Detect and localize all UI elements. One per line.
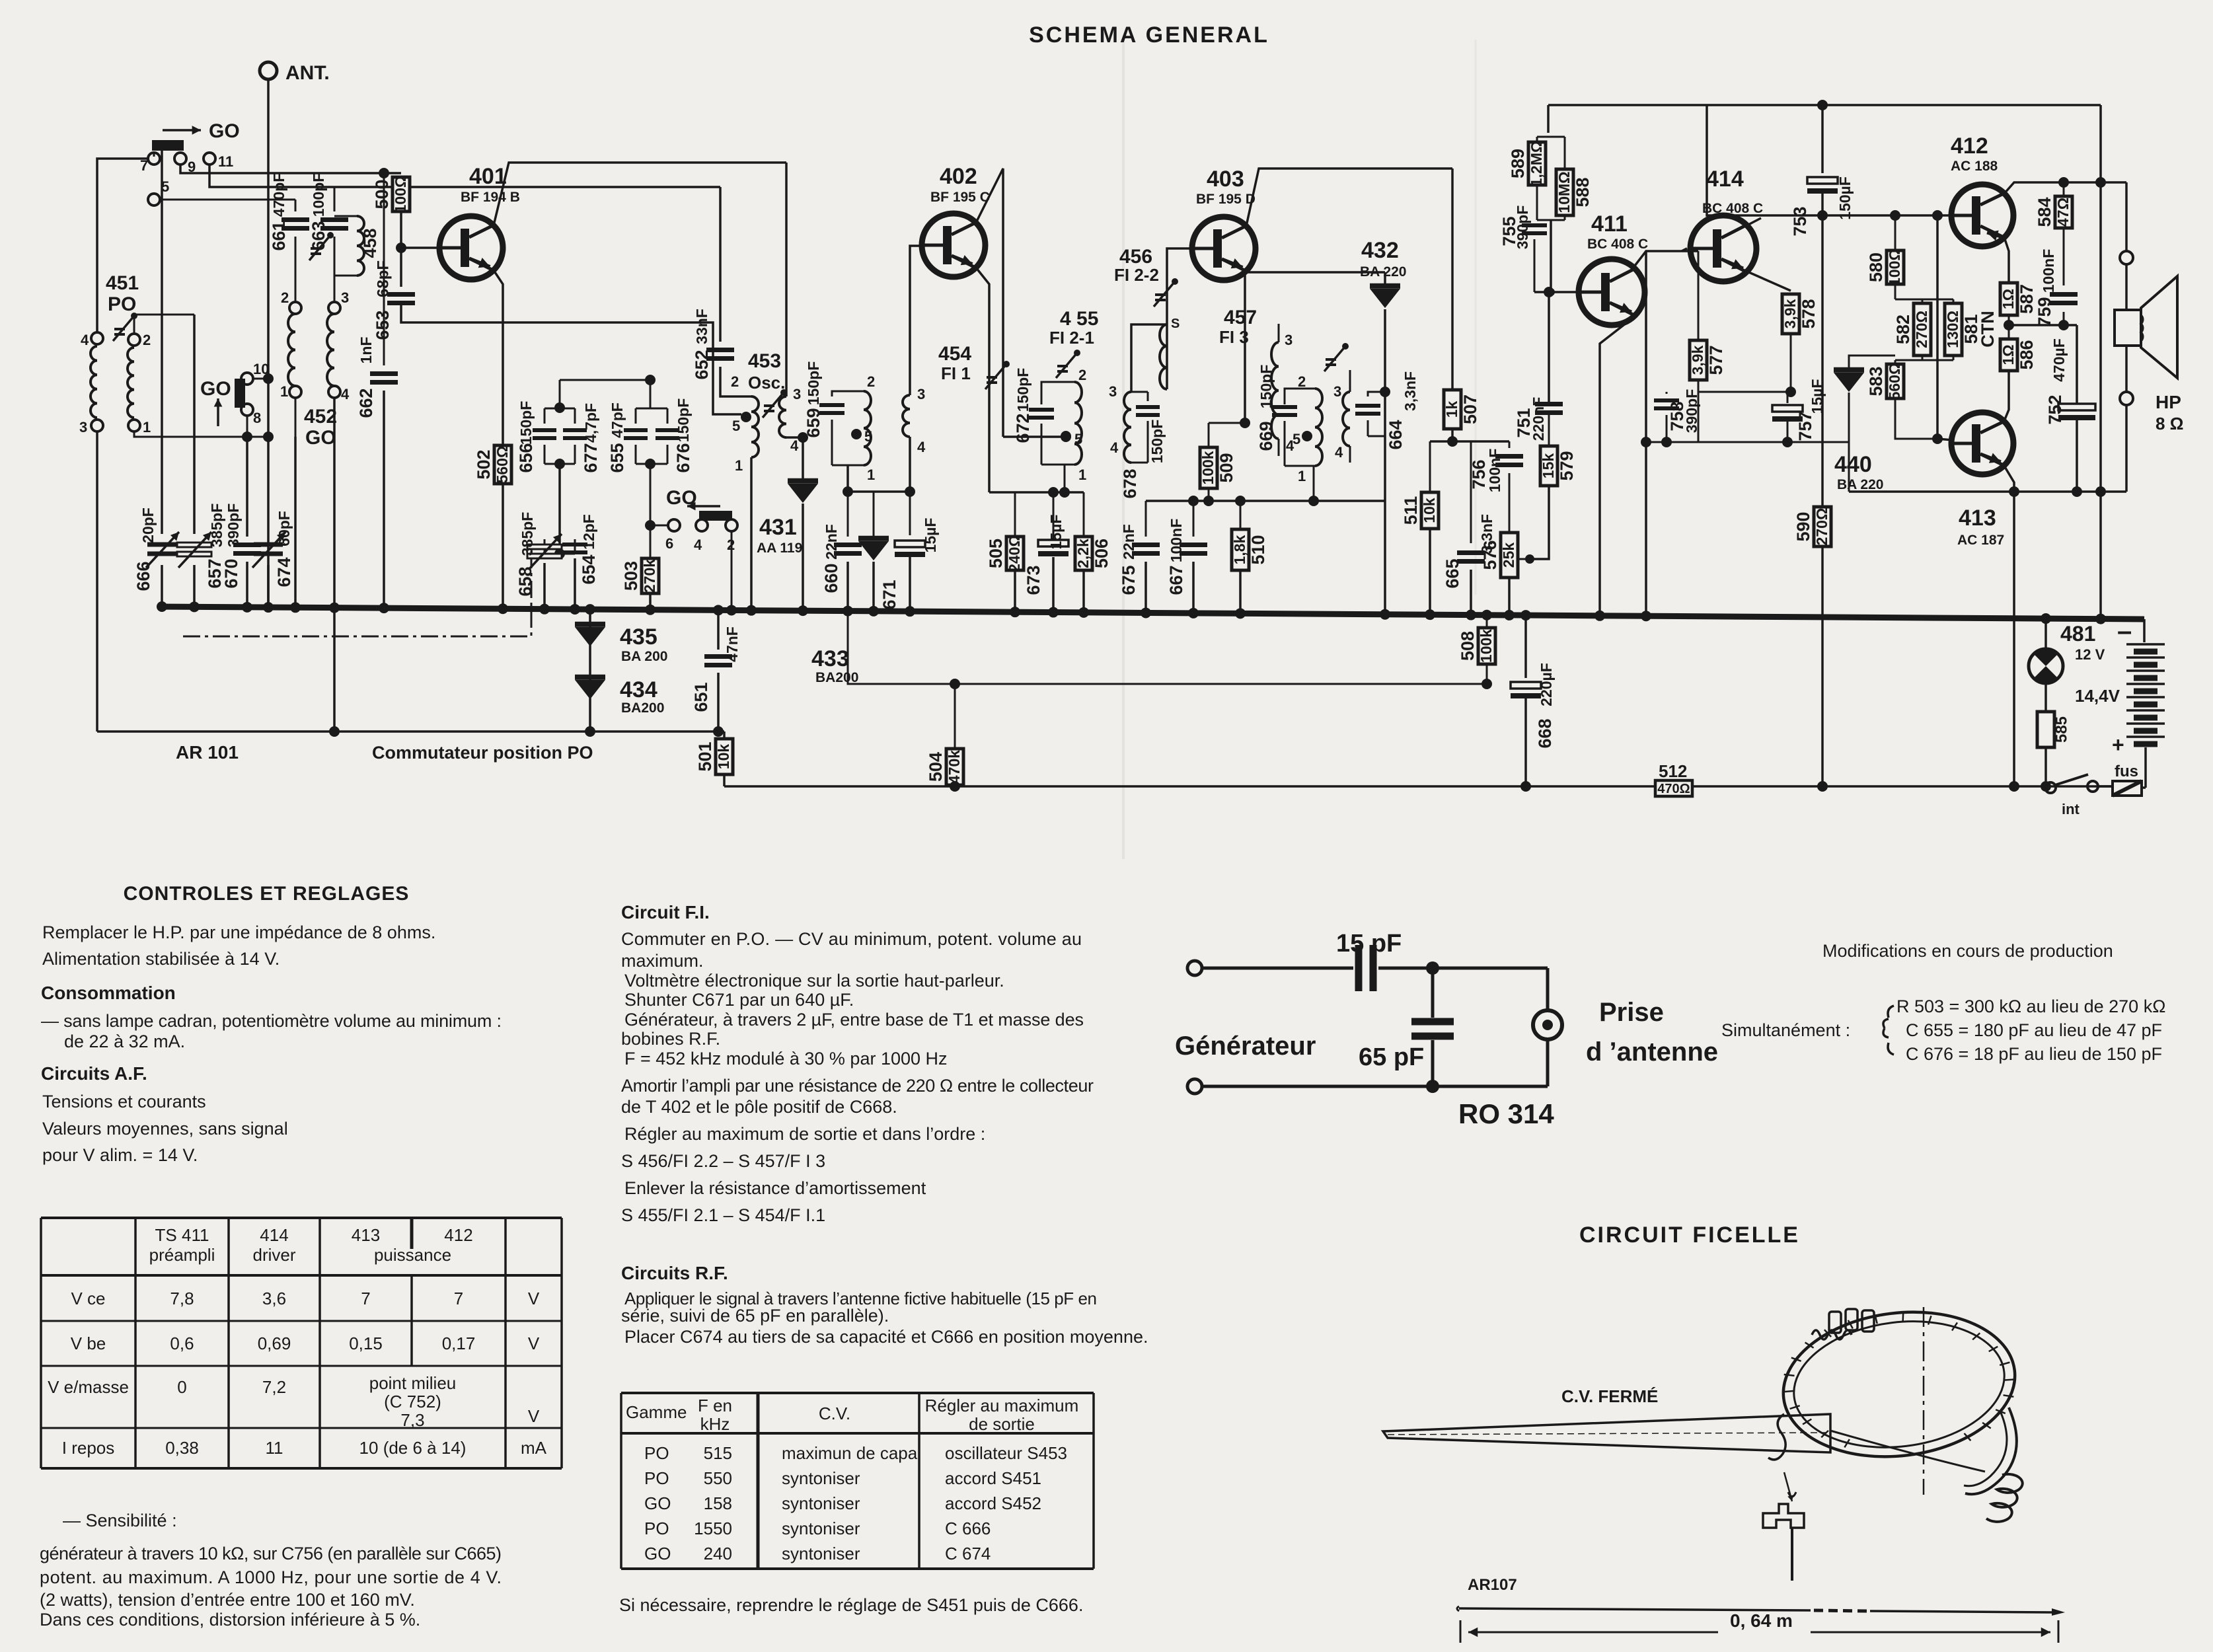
svg-text:587: 587 [2017, 284, 2037, 314]
svg-text:8: 8 [253, 410, 261, 426]
svg-text:100Ω: 100Ω [392, 176, 409, 213]
AGC line from detector [848, 611, 1487, 684]
capacitor C652 33nF [719, 187, 722, 342]
svg-text:1,8k: 1,8k [1231, 535, 1248, 564]
wire cap to node [1378, 967, 1548, 970]
svg-text:accord S452: accord S452 [945, 1493, 1041, 1513]
antenna terminal ANT [260, 62, 277, 79]
svg-text:652: 652 [692, 350, 712, 379]
svg-text:412: 412 [444, 1225, 472, 1245]
resistor R577 3.9k [1698, 251, 1700, 340]
svg-text:240Ω: 240Ω [1006, 535, 1023, 572]
svg-text:11: 11 [218, 153, 233, 170]
svg-text:434: 434 [620, 677, 657, 702]
svg-text:414: 414 [1706, 167, 1744, 192]
svg-text:752: 752 [2045, 394, 2065, 424]
capacitor C667 100nF [1193, 501, 1195, 537]
wire T413 base [1936, 215, 1939, 439]
transistor T413 AC187 [1951, 412, 2013, 474]
svg-text:20pF: 20pF [139, 507, 157, 543]
svg-text:driver: driver [252, 1245, 295, 1265]
wire coil1 to switch line [134, 432, 268, 437]
svg-text:656: 656 [516, 443, 536, 472]
coil 458 [334, 215, 357, 217]
capacitor 15pF series [1359, 945, 1373, 991]
svg-text:BA 220: BA 220 [1360, 264, 1406, 280]
svg-text:I repos: I repos [62, 1438, 115, 1458]
resistor R511 10k [1429, 441, 1431, 492]
svg-text:Circuits A.F.: Circuits A.F. [41, 1063, 147, 1084]
455 secondary winding [1124, 392, 1131, 463]
svg-text:1: 1 [280, 383, 288, 400]
contact 3 of 452 [328, 302, 340, 314]
svg-text:672: 672 [1013, 413, 1033, 443]
contact 2 [128, 334, 140, 346]
svg-text:1: 1 [143, 419, 151, 435]
svg-text:60pF: 60pF [276, 511, 293, 546]
svg-text:402: 402 [940, 164, 977, 189]
wire generator top [1202, 967, 1353, 970]
dash-dot gang line [183, 544, 531, 636]
svg-text:432: 432 [1361, 238, 1399, 263]
wire contact9 rail [180, 165, 401, 173]
svg-text:150µF: 150µF [1836, 176, 1854, 220]
transistor T402 BF195C [922, 213, 985, 277]
resistor R580 100ohm [1894, 215, 1896, 250]
svg-text:65 pF: 65 pF [1359, 1043, 1424, 1071]
svg-text:2: 2 [1078, 367, 1086, 383]
svg-text:1: 1 [735, 457, 743, 474]
svg-text:bobines R.F.: bobines R.F. [621, 1029, 720, 1049]
svg-text:oscillateur S453: oscillateur S453 [945, 1443, 1067, 1463]
transistor T411 BC408C [1579, 259, 1645, 325]
tension spring [1986, 1474, 2023, 1522]
svg-text:507: 507 [1460, 394, 1480, 424]
wire contact8 down [246, 416, 248, 437]
svg-text:508: 508 [1458, 631, 1478, 661]
svg-text:509: 509 [1217, 453, 1236, 482]
svg-text:3: 3 [917, 386, 925, 402]
svg-text:3,9k: 3,9k [1689, 345, 1706, 375]
capacitor C752 470uF [2076, 325, 2078, 403]
svg-text:390pF: 390pF [225, 504, 242, 547]
wire 457 pin1 to line [1313, 466, 1315, 501]
svg-text:Consommation: Consommation [41, 983, 176, 1003]
svg-text:500: 500 [372, 179, 392, 209]
svg-text:666: 666 [133, 561, 153, 591]
svg-text:453: 453 [748, 350, 781, 372]
capacitor C758 390pF [1654, 400, 1679, 408]
resistor R509 100k [1244, 272, 1246, 423]
svg-text:PO: PO [644, 1443, 669, 1463]
T411 collector load line [1645, 251, 1647, 616]
svg-text:240: 240 [704, 1544, 732, 1563]
wire contact10 [253, 378, 268, 380]
svg-text:3,6: 3,6 [262, 1289, 286, 1308]
svg-text:47nF: 47nF [724, 626, 741, 662]
svg-text:BF 194 B: BF 194 B [461, 190, 520, 205]
svg-text:150pF: 150pF [1014, 368, 1031, 412]
svg-text:100Ω: 100Ω [1886, 248, 1903, 286]
svg-text:503: 503 [621, 561, 641, 591]
contact 1 [128, 420, 140, 432]
svg-text:550: 550 [704, 1468, 732, 1488]
contact 6 [668, 519, 680, 531]
svg-text:–: – [2117, 617, 2132, 646]
svg-text:669: 669 [1256, 421, 1276, 451]
capacitor C670 390pF [246, 437, 248, 537]
svg-text:0, 64 m: 0, 64 m [1730, 1610, 1793, 1631]
capacitor C662 1nF [383, 173, 385, 365]
svg-text:4: 4 [790, 437, 799, 454]
svg-text:671: 671 [880, 580, 899, 609]
svg-text:de 22 à 32 mA.: de 22 à 32 mA. [64, 1032, 185, 1051]
svg-text:1Ω: 1Ω [2000, 344, 2017, 365]
pilot lamp 481 12V [2041, 613, 2051, 624]
resistor R507 1k [1451, 169, 1454, 390]
svg-text:130Ω: 130Ω [1944, 311, 1961, 348]
svg-text:Valeurs moyennes, sans signal: Valeurs moyennes, sans signal [42, 1119, 288, 1139]
svg-text:452: 452 [304, 406, 337, 428]
svg-text:R 503 = 300 kΩ au lieu de 270: R 503 = 300 kΩ au lieu de 270 kΩ [1896, 996, 2165, 1016]
svg-text:414: 414 [260, 1225, 288, 1245]
svg-text:22nF: 22nF [823, 524, 840, 560]
svg-text:CTN: CTN [1978, 311, 1998, 348]
svg-text:7,8: 7,8 [170, 1289, 194, 1308]
svg-text:10MΩ: 10MΩ [1556, 171, 1573, 213]
svg-text:V ce: V ce [71, 1289, 105, 1308]
svg-text:C 655 = 180 pF au lieu de 47 p: C 655 = 180 pF au lieu de 47 pF [1906, 1020, 2162, 1040]
svg-text:fus: fus [2115, 763, 2138, 780]
svg-text:1nF: 1nF [357, 337, 375, 364]
svg-text:15 pF: 15 pF [1336, 930, 1402, 957]
svg-text:préampli: préampli [149, 1245, 215, 1265]
svg-text:15µF: 15µF [922, 518, 939, 553]
svg-text:270Ω: 270Ω [1813, 508, 1830, 546]
svg-text:14,4V: 14,4V [2075, 686, 2120, 706]
svg-text:401: 401 [469, 164, 507, 189]
svg-text:PO: PO [644, 1519, 669, 1538]
bias resistors R589 R588 [1547, 105, 1550, 133]
svg-text:655: 655 [607, 443, 627, 472]
svg-text:int: int [2062, 801, 2080, 817]
svg-text:syntoniser: syntoniser [782, 1493, 860, 1513]
diode D433 BA200 [873, 492, 875, 537]
svg-text:100pF: 100pF [310, 173, 327, 217]
collector wire T411 [1633, 251, 1698, 268]
wire to T403 base [1167, 248, 1191, 389]
resistor R508 100k [1486, 615, 1488, 628]
drum tabs [1829, 1312, 1841, 1333]
svg-text:590: 590 [1793, 511, 1813, 541]
svg-text:S 456/FI 2.2 – S 457/F I 3: S 456/FI 2.2 – S 457/F I 3 [621, 1151, 825, 1171]
svg-text:Enlever la résistance d’amorti: Enlever la résistance d’amortissement [624, 1178, 926, 1198]
svg-text:385pF: 385pF [519, 512, 536, 556]
resistor R583 560ohm [1894, 360, 1896, 364]
collector wire T402 [976, 169, 1003, 437]
svg-text:4: 4 [1110, 439, 1119, 456]
svg-text:AC 188: AC 188 [1951, 159, 1998, 174]
svg-text:série, suivi de 65 pF en paral: série, suivi de 65 pF en parallèle). [621, 1306, 889, 1326]
transistor T414 BC408C [1690, 215, 1756, 282]
svg-text:653: 653 [373, 310, 393, 340]
variable capacitor C666 20pF [161, 151, 163, 534]
svg-text:Régler au maximum: Régler au maximum [925, 1396, 1079, 1415]
main supply vertical [2099, 105, 2102, 619]
svg-text:412: 412 [1951, 133, 1988, 159]
collector wire T403 [1246, 169, 1452, 226]
svg-text:— sans lampe cadran, potentio: — sans lampe cadran, potentiomètre volum… [41, 1011, 502, 1031]
svg-text:678: 678 [1120, 469, 1140, 498]
capacitor C653 68pF [400, 248, 402, 287]
capacitor C755 390pF [1522, 225, 1547, 233]
457 secondary winding [1343, 392, 1350, 446]
wire C653 to oscillator [401, 303, 741, 414]
svg-text:663: 663 [309, 221, 328, 250]
svg-text:661: 661 [269, 221, 289, 250]
svg-text:753: 753 [1790, 206, 1810, 236]
svg-text:100nF: 100nF [2040, 249, 2057, 293]
svg-text:583: 583 [1866, 366, 1886, 396]
svg-text:403: 403 [1207, 167, 1244, 192]
capacitor C671 15uF [909, 492, 911, 535]
cord rod [1459, 1608, 1811, 1610]
svg-text:1: 1 [1298, 468, 1306, 484]
svg-text:GO: GO [305, 427, 336, 449]
svg-text:Circuits R.F.: Circuits R.F. [621, 1263, 728, 1283]
generator terminal top [1187, 961, 1202, 975]
svg-text:150pF: 150pF [805, 361, 822, 405]
svg-text:6: 6 [665, 535, 673, 552]
svg-text:15k: 15k [1540, 453, 1557, 479]
speaker terminal bottom [2125, 405, 2128, 492]
output node line [2009, 324, 2077, 326]
svg-text:431: 431 [759, 515, 797, 540]
svg-text:V: V [528, 1333, 540, 1353]
svg-text:576: 576 [1480, 540, 1500, 570]
svg-text:270k: 270k [641, 559, 658, 593]
capacitor C675 22nF [1145, 501, 1147, 537]
svg-text:668: 668 [1535, 718, 1555, 748]
wire 455 pin1 to emitter network [1064, 465, 1066, 492]
svg-text:AA 119: AA 119 [757, 541, 802, 556]
svg-text:BA200: BA200 [621, 700, 664, 716]
oscillator transformer primary [751, 396, 759, 457]
svg-text:GO: GO [644, 1544, 671, 1563]
svg-text:584: 584 [2035, 197, 2054, 227]
svg-text:maximun de capa: maximun de capa [782, 1443, 918, 1463]
caps 655 676 GO padder [650, 380, 652, 408]
emitter wire T411 [1600, 316, 1635, 616]
bias chain T412 T413 [1890, 210, 1900, 221]
capacitor C660 22nF [847, 492, 849, 537]
svg-text:7,2: 7,2 [262, 1377, 286, 1397]
svg-text:4: 4 [694, 537, 702, 553]
feedback rails [1698, 391, 1791, 393]
svg-text:0,6: 0,6 [170, 1333, 194, 1353]
FI1 primary winding [864, 391, 871, 465]
svg-text:1550: 1550 [694, 1519, 732, 1538]
svg-text:577: 577 [1706, 345, 1726, 375]
svg-text:HP: HP [2156, 392, 2181, 412]
svg-text:2: 2 [867, 373, 875, 390]
svg-text:454: 454 [938, 343, 971, 365]
svg-text:AR107: AR107 [1468, 1576, 1517, 1594]
457 primary winding [1315, 389, 1322, 466]
drum band lower curl [1965, 1408, 2017, 1494]
capacitor C654 12pF [560, 553, 575, 555]
svg-text:CONTROLES ET REGLAGES: CONTROLES ET REGLAGES [124, 883, 410, 905]
coil L451b [128, 348, 134, 418]
svg-text:5: 5 [864, 428, 872, 445]
switch common line [97, 730, 724, 733]
resistor R579 15k [1540, 446, 1557, 486]
svg-text:Amortir l’ampli par une résist: Amortir l’ampli par une résistance de 22… [621, 1076, 1094, 1096]
svg-text:390pF: 390pF [1683, 389, 1700, 433]
svg-text:Simultanément :: Simultanément : [1721, 1020, 1850, 1040]
svg-text:654: 654 [579, 554, 599, 584]
svg-text:150pF: 150pF [675, 398, 692, 442]
svg-text:470k: 470k [946, 750, 963, 784]
padder caps 656 677 [559, 380, 561, 408]
svg-text:589: 589 [1508, 149, 1528, 178]
svg-text:1: 1 [1078, 467, 1086, 483]
svg-text:501: 501 [695, 741, 715, 771]
svg-text:11: 11 [266, 1438, 283, 1458]
svg-text:S: S [1171, 317, 1180, 331]
cord to spring [1830, 1431, 1985, 1472]
svg-text:PO: PO [644, 1468, 669, 1488]
svg-text:0,17: 0,17 [442, 1333, 476, 1353]
generator terminal bottom [1187, 1079, 1202, 1094]
svg-text:510: 510 [1248, 535, 1268, 564]
variable capacitor C657 385pF tuning gang [193, 315, 196, 534]
svg-text:12pF: 12pF [580, 514, 597, 550]
svg-text:505: 505 [986, 539, 1006, 568]
svg-text:3: 3 [1109, 383, 1117, 400]
cord hook [1768, 1414, 1785, 1460]
svg-text:677: 677 [581, 443, 601, 472]
svg-text:kHz: kHz [700, 1414, 730, 1434]
svg-text:GO: GO [209, 120, 240, 142]
svg-text:4: 4 [917, 439, 926, 455]
svg-text:1,2MΩ: 1,2MΩ [1528, 141, 1545, 187]
capacitor C659 150pF [832, 391, 864, 396]
svg-text:582: 582 [1893, 315, 1913, 344]
output bottom line [1848, 442, 1850, 492]
drum band hatching [1844, 1439, 1850, 1447]
resistor R506 2.2k [1075, 537, 1092, 570]
dial drum ring [1775, 1299, 2023, 1469]
transistor T412 AC188 [1951, 184, 2013, 246]
capacitor 65pF shunt [1431, 968, 1435, 1018]
wire speaker return down [2013, 492, 2015, 786]
svg-text:générateur à travers 10 kΩ, su: générateur à travers 10 kΩ, sur C756 (en… [40, 1544, 502, 1563]
capacitor C663 100pF [334, 187, 336, 211]
wire contact11 rail [209, 165, 720, 187]
coil L452b GO [327, 314, 334, 386]
transistor T403 BF195D [1192, 217, 1256, 280]
svg-text:33nF: 33nF [693, 309, 710, 344]
wire generator bottom [1202, 1085, 1548, 1088]
svg-text:pour V alim. = 14 V.: pour V alim. = 14 V. [42, 1145, 198, 1165]
emitter network T402 [989, 491, 1084, 494]
transistor T401 BF194B [439, 216, 503, 280]
svg-text:5: 5 [1074, 431, 1082, 447]
parallel R582 R581 CTN [1922, 299, 1953, 301]
svg-text:+: + [2112, 733, 2124, 757]
svg-text:Dans ces conditions, distorsio: Dans ces conditions, distorsion inférieu… [40, 1610, 420, 1630]
svg-text:579: 579 [1557, 451, 1577, 480]
svg-text:4: 4 [81, 332, 89, 348]
svg-text:10k: 10k [715, 744, 732, 770]
ground bus [161, 607, 2144, 619]
svg-text:7,3: 7,3 [400, 1410, 424, 1430]
svg-text:de T 402 et le pôle positif de: de T 402 et le pôle positif de C668. [621, 1097, 897, 1117]
svg-text:V: V [528, 1289, 540, 1308]
svg-text:390pF: 390pF [1514, 206, 1531, 249]
svg-text:413: 413 [1959, 506, 1996, 531]
coil 661 secondary string [148, 194, 160, 206]
svg-text:2: 2 [1298, 373, 1306, 390]
svg-text:8 Ω: 8 Ω [2156, 414, 2184, 433]
svg-text:5: 5 [161, 178, 169, 195]
svg-text:662: 662 [356, 388, 376, 418]
svg-text:point milieu: point milieu [369, 1373, 457, 1393]
diode D440 BA220 [1834, 367, 1864, 373]
capacitor C673 15uF [1038, 540, 1069, 546]
resistor R504 470k [954, 684, 956, 749]
svg-text:481: 481 [2060, 622, 2095, 646]
svg-text:Commutateur position PO: Commutateur position PO [372, 743, 593, 763]
svg-text:accord S451: accord S451 [945, 1468, 1041, 1488]
svg-text:Gamme: Gamme [626, 1402, 687, 1422]
emitter wire T401 to R502 [494, 270, 503, 445]
svg-text:RO 314: RO 314 [1458, 1098, 1554, 1129]
wire R500 to base node [400, 211, 402, 248]
svg-text:150pF: 150pF [1148, 420, 1166, 463]
svg-text:2: 2 [143, 332, 151, 348]
svg-text:674: 674 [274, 557, 294, 587]
resistor R510 1.8k [1240, 501, 1242, 529]
resistor R585 [2044, 683, 2047, 712]
capacitor C665 3.3nF [1470, 441, 1472, 543]
456 winding [1160, 324, 1167, 389]
svg-text:V: V [528, 1406, 540, 1426]
contact 4 [91, 332, 103, 344]
capacitor C751 220nF [1548, 415, 1550, 446]
svg-text:659: 659 [804, 408, 823, 437]
coil L452a [288, 314, 295, 386]
svg-text:3: 3 [1333, 383, 1341, 400]
svg-text:Commuter en P.O. — CV au minim: Commuter en P.O. — CV au minimum, potent… [621, 929, 1082, 949]
coil L451a [91, 346, 97, 418]
table voltages [41, 1217, 562, 1219]
svg-text:47Ω: 47Ω [2054, 198, 2072, 227]
oscillator transformer secondary [785, 163, 788, 396]
svg-text:5: 5 [732, 418, 740, 434]
svg-text:580: 580 [1866, 252, 1886, 282]
svg-text:C 676 = 18 pF au lieu de 150: C 676 = 18 pF au lieu de 150 pF [1906, 1044, 2162, 1064]
svg-text:— Sensibilité :: — Sensibilité : [63, 1511, 177, 1530]
wire contact2 up [134, 315, 194, 334]
svg-text:0,15: 0,15 [349, 1333, 383, 1353]
wire 452 down to bus and switch line [333, 398, 336, 608]
svg-text:BC 408 C: BC 408 C [1587, 237, 1648, 252]
svg-text:Alimentation stabilisée à 14 V: Alimentation stabilisée à 14 V. [42, 949, 280, 969]
svg-text:502: 502 [474, 449, 494, 479]
wire antenna down [267, 79, 270, 607]
